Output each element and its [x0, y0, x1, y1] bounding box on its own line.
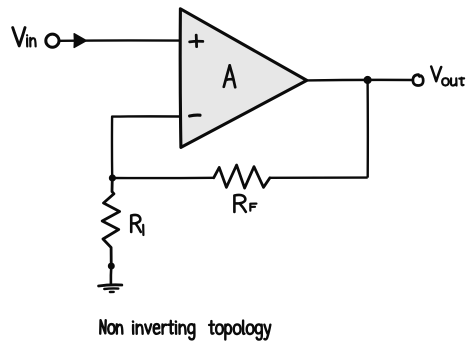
resistor RF: [214, 165, 270, 188]
pin + non-inverting input: [190, 35, 203, 46]
label RF: [234, 195, 245, 212]
wire feedback vertical right: [366, 80, 369, 178]
label Vin: [13, 28, 36, 47]
node feedback junction: [109, 174, 116, 181]
wire feedback bottom right segment: [270, 176, 368, 179]
caption Non inverting topology: [100, 320, 122, 334]
resistor R1: [102, 178, 119, 262]
label R1: [131, 215, 141, 232]
wire Vin to non-inverting input: [60, 39, 180, 42]
ground: [99, 285, 122, 292]
node output junction: [364, 76, 372, 84]
label A gain: [224, 65, 235, 87]
node ground junction: [108, 263, 115, 270]
label Vout: [431, 67, 464, 86]
wire op-amp output: [307, 79, 413, 82]
op-amp U1: [180, 9, 307, 148]
pin − inverting input: [190, 114, 200, 118]
wire inverting input feedback: [112, 116, 180, 178]
arrow input direction: [74, 34, 86, 48]
terminal Vin: [46, 34, 59, 47]
terminal Vout: [413, 75, 423, 86]
wire feedback bottom left segment: [112, 177, 213, 180]
wire to ground: [110, 266, 113, 285]
